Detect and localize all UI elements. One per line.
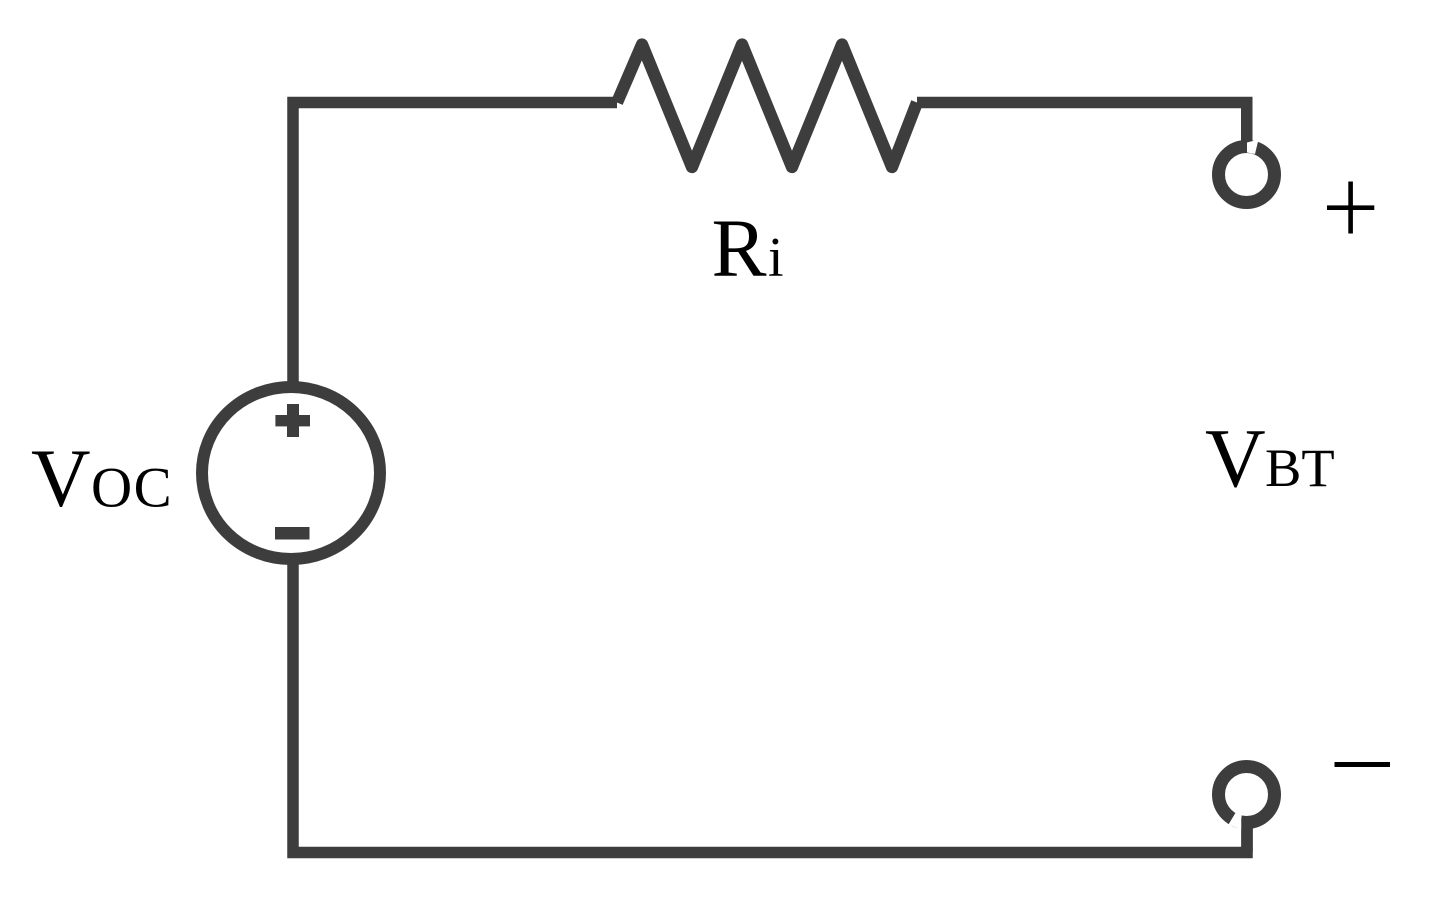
svg-text:V: V [1205, 412, 1266, 505]
svg-text:OC: OC [91, 457, 173, 520]
svg-text:i: i [768, 227, 784, 289]
svg-text:V: V [31, 432, 91, 524]
svg-text:R: R [712, 202, 767, 294]
svg-text:BT: BT [1265, 437, 1335, 498]
